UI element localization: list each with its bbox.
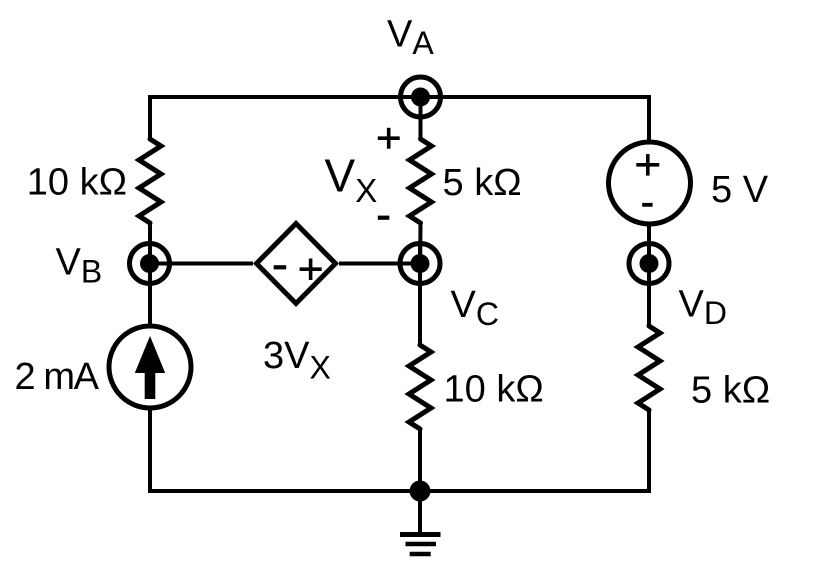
svg-text:VD: VD xyxy=(679,284,727,332)
dependent source plus sign xyxy=(300,259,322,281)
node VB circle xyxy=(130,244,170,284)
node VD dot xyxy=(640,254,659,273)
dependent source diamond 3Vx xyxy=(257,224,336,304)
wire diamond to VC node xyxy=(339,262,420,266)
ground bar 3 xyxy=(410,552,431,557)
current source arrow head xyxy=(135,336,165,373)
svg-text:VX: VX xyxy=(325,150,378,209)
svg-text:VC: VC xyxy=(451,284,499,332)
wire ground stem xyxy=(418,491,422,532)
ground bar 2 xyxy=(406,542,437,547)
voltage source plus sign xyxy=(636,154,659,176)
wire bottom rail xyxy=(150,489,649,493)
svg-text:5 kΩ: 5 kΩ xyxy=(691,370,770,412)
svg-text:VB: VB xyxy=(56,242,103,290)
wire top rail xyxy=(150,95,649,99)
wire left rail current source to bottom xyxy=(148,410,152,493)
wire left rail between resistor and VB node xyxy=(148,223,152,286)
resistor 5 kOhm middle-top body xyxy=(410,139,432,223)
current source arrow shaft xyxy=(145,371,156,399)
wire right rail upper xyxy=(647,95,651,140)
current source I1 2mA circle xyxy=(109,326,191,408)
node VC dot xyxy=(411,254,430,273)
wire middle VA node to resistor xyxy=(419,97,423,139)
resistor 10 kOhm left body xyxy=(139,139,161,223)
wire middle lower resistor to bottom rail xyxy=(418,429,422,493)
node VC circle xyxy=(400,244,440,284)
ground bar 1 xyxy=(400,532,441,537)
svg-text:3VX: 3VX xyxy=(263,335,331,386)
label plus above Vx xyxy=(378,128,400,149)
wire right 5V source to VD node xyxy=(647,226,651,286)
wire right VD node to resistor xyxy=(647,241,651,326)
wire left rail VB node to current source xyxy=(148,241,152,324)
svg-text:10 kΩ: 10 kΩ xyxy=(444,369,544,411)
svg-text:VA: VA xyxy=(387,13,434,61)
svg-text:5 kΩ: 5 kΩ xyxy=(443,162,522,204)
voltage source minus sign xyxy=(642,203,652,207)
resistor 5 kOhm right body xyxy=(638,326,660,410)
wire middle VC node to lower resistor xyxy=(418,241,422,345)
node VA dot xyxy=(411,88,430,107)
wire middle resistor to VC node xyxy=(418,223,423,286)
wire left rail upper xyxy=(148,95,152,139)
svg-text:10 kΩ: 10 kΩ xyxy=(27,162,127,204)
wire right resistor to bottom xyxy=(647,410,651,493)
label minus below Vx xyxy=(378,216,390,220)
resistor 10 kOhm middle-bottom body xyxy=(409,345,431,429)
svg-text:5 V: 5 V xyxy=(711,169,769,211)
wire VB node to diamond xyxy=(150,262,253,266)
dependent source minus sign xyxy=(274,265,287,269)
svg-text:2 mA: 2 mA xyxy=(15,356,100,398)
junction dot bottom rail xyxy=(410,481,431,502)
voltage source 5V circle xyxy=(609,142,691,224)
node VA circle xyxy=(401,77,441,117)
node VB dot xyxy=(140,254,159,273)
node VD circle xyxy=(629,244,669,284)
